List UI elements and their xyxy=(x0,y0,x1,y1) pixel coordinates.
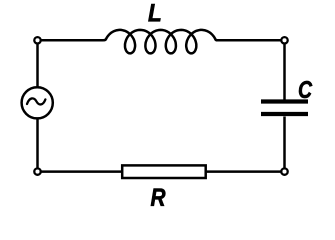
svg-text:L: L xyxy=(148,0,162,27)
svg-text:C: C xyxy=(298,77,313,104)
node top-left xyxy=(34,37,40,43)
wire left lower xyxy=(36,119,39,168)
wire bottom-left segment xyxy=(42,170,123,173)
wire right lower xyxy=(283,117,286,168)
wire bottom-right segment xyxy=(206,170,281,173)
sine symbol xyxy=(27,98,45,104)
AC source V1 xyxy=(22,87,53,118)
node bottom-left xyxy=(34,168,40,174)
wire top-left segment xyxy=(42,39,104,42)
node top-right xyxy=(281,37,287,43)
resistor R1 xyxy=(122,165,206,178)
svg-text:R: R xyxy=(150,184,165,212)
wire left upper xyxy=(36,44,39,87)
node bottom-right xyxy=(281,168,287,174)
capacitor C1 top plate xyxy=(261,99,308,103)
capacitor C1 bottom plate xyxy=(261,112,308,116)
inductor L1 xyxy=(104,30,218,54)
wire right upper xyxy=(283,44,286,99)
wire top-right segment xyxy=(216,39,281,42)
